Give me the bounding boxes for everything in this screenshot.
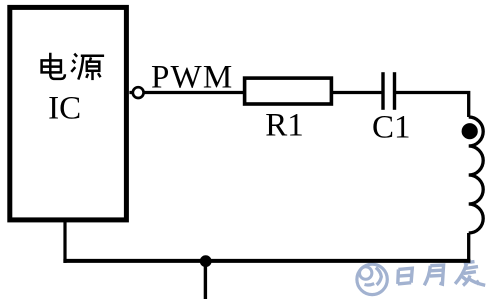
svg-text:IC: IC	[48, 90, 81, 126]
power IC box	[10, 7, 127, 220]
inductor L1 coil	[469, 117, 484, 233]
pin terminal open circle	[133, 87, 144, 98]
winding polarity dot	[462, 123, 478, 139]
capacitor C1	[383, 72, 395, 110]
wire capacitor to inductor (top right corner)	[395, 93, 469, 118]
resistor R1	[245, 78, 332, 104]
wire resistor to capacitor	[332, 91, 384, 94]
wire junction stub down	[204, 261, 207, 299]
wire IC bottom to return	[63, 219, 66, 263]
watermark text chen (star)	[455, 262, 485, 286]
watermark text yue (moon)	[424, 265, 443, 285]
bottom return wire	[63, 259, 470, 263]
svg-text:PWM: PWM	[151, 59, 233, 95]
label dian (electric) glyph	[42, 53, 65, 79]
svg-text:C1: C1	[372, 110, 411, 146]
svg-text:R1: R1	[265, 107, 304, 143]
watermark text ri (sun)	[398, 268, 413, 284]
wire PWM output to resistor	[129, 91, 244, 94]
watermark logo circle	[357, 264, 387, 294]
wire inductor bottom	[467, 233, 470, 261]
junction node	[200, 255, 212, 267]
label yuan (source) glyph	[71, 54, 104, 81]
